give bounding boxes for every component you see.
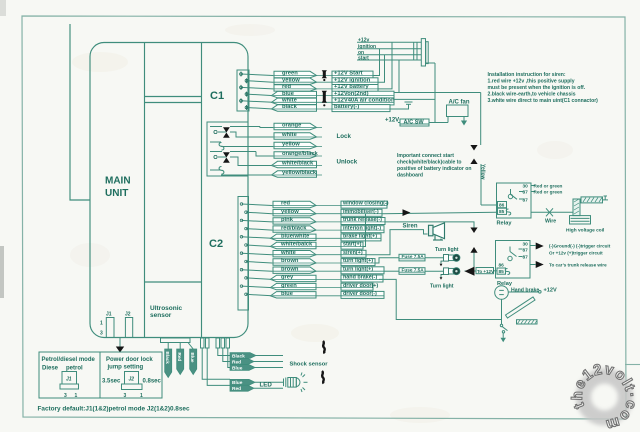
svg-text:85: 85 (499, 269, 505, 275)
svg-text:white: white (281, 98, 298, 104)
svg-text:To car’s trunk release wire: To car’s trunk release wire (549, 263, 607, 268)
svg-text:Fuse 7.5A: Fuse 7.5A (402, 254, 425, 259)
svg-text:Hand brake: Hand brake (511, 287, 539, 293)
svg-text:blue/white: blue/white (281, 234, 310, 240)
svg-text:white/balck: white/balck (280, 242, 313, 248)
svg-text:must be present when the ignit: must be present when the ignition is off… (488, 85, 586, 91)
svg-text:blue: blue (282, 91, 295, 97)
svg-text:Factory default:J1(1&2)petrol: Factory default:J1(1&2)petrol mode J2(1&… (38, 406, 190, 413)
svg-text:red: red (282, 84, 291, 90)
svg-text:1: 1 (100, 321, 103, 327)
svg-text:driver door(-): driver door(-) (343, 291, 377, 297)
svg-text:interion light(-): interion light(-) (343, 225, 381, 231)
svg-text:+12V40A air condition: +12V40A air condition (334, 98, 395, 104)
svg-text:window closing(-): window closing(-) (342, 201, 389, 207)
svg-text:yellow/black: yellow/black (282, 170, 317, 176)
svg-text:Wire: Wire (545, 219, 556, 225)
svg-text:hand brake(-): hand brake(-) (343, 275, 377, 281)
svg-text:Power door lock: Power door lock (106, 357, 153, 363)
svg-text:siren(+): siren(+) (343, 250, 363, 256)
svg-text:brown: brown (281, 258, 299, 264)
svg-text:J1: J1 (66, 377, 72, 383)
svg-text:Blue: Blue (232, 365, 243, 371)
svg-text:brown: brown (281, 266, 299, 272)
svg-text:1: 1 (140, 393, 143, 399)
svg-text:jump setting: jump setting (107, 365, 144, 371)
svg-text:yellow: yellow (281, 209, 299, 215)
svg-text:start(+): start(+) (343, 242, 362, 248)
svg-text:battery(-): battery(-) (334, 104, 359, 110)
svg-text:+12V: +12V (385, 118, 399, 124)
svg-text:Turn light: Turn light (435, 247, 459, 253)
svg-text:Unlock: Unlock (337, 159, 358, 166)
svg-text:UNIT: UNIT (105, 188, 128, 199)
svg-text:(-)Ground(-) (-)trigger circu: (-)Ground(-) (-)trigger circuit (549, 244, 611, 249)
svg-text:Red: Red (177, 353, 182, 362)
svg-text:white: white (281, 132, 298, 138)
svg-text:Or +12v (+)trigger circui: Or +12v (+)trigger circuit (549, 251, 603, 256)
svg-text:green: green (282, 71, 298, 77)
svg-text:+12V: +12V (544, 287, 557, 293)
svg-text:immobiliser(-): immobiliser(-) (343, 209, 379, 215)
svg-text:1: 1 (75, 393, 78, 399)
svg-text:Shock sensor: Shock sensor (290, 362, 329, 368)
svg-text:check(white/black)cable to: check(white/black)cable to (397, 160, 462, 166)
svg-text:Red: Red (232, 386, 241, 392)
svg-text:Yellow: Yellow (480, 164, 486, 180)
svg-text:0.8sec: 0.8sec (143, 379, 162, 385)
svg-text:+12V Start: +12V Start (334, 71, 363, 77)
svg-text:grey: grey (281, 275, 294, 281)
svg-text:sensor: sensor (150, 312, 172, 319)
svg-text:white/black: white/black (281, 161, 314, 167)
svg-text:1.red wire +12v ,this positive: 1.red wire +12v ,this positive supply (488, 79, 575, 85)
svg-text:86: 86 (499, 263, 505, 269)
svg-text:2.black wire-earth,to vehicle: 2.black wire-earth,to vehicle chassis (488, 92, 576, 98)
svg-text:MAIN: MAIN (105, 176, 131, 187)
svg-text:yellow: yellow (282, 142, 300, 148)
svg-text:Red: Red (232, 359, 241, 365)
svg-text:C2: C2 (209, 238, 223, 250)
svg-text:Ultrosonic: Ultrosonic (150, 305, 183, 312)
svg-text:white: white (280, 250, 297, 256)
svg-text:Red or green: Red or green (534, 183, 563, 188)
svg-text:85: 85 (499, 209, 505, 215)
svg-text:Blue: Blue (232, 380, 243, 386)
svg-text:30: 30 (523, 184, 529, 190)
svg-text:pink: pink (281, 217, 294, 223)
svg-text:C1: C1 (210, 90, 224, 102)
svg-text:Relay: Relay (497, 221, 513, 227)
svg-text:3: 3 (64, 393, 67, 399)
svg-text:3.white wire direct to main ui: 3.white wire direct to main uint(C1 conn… (488, 98, 599, 104)
svg-text:positive of battery indicator: positive of battery indicator on (397, 166, 471, 172)
svg-text:LED: LED (260, 381, 273, 388)
svg-text:A/C fan: A/C fan (449, 100, 470, 106)
svg-text:87: 87 (523, 198, 529, 204)
svg-text:Siren: Siren (403, 224, 418, 230)
svg-text:petrol: petrol (66, 366, 83, 372)
svg-text:+12V ignition: +12V ignition (334, 77, 371, 83)
svg-text:J2: J2 (125, 312, 131, 318)
svg-text:To +12V: To +12V (477, 269, 494, 274)
svg-text:dashboard: dashboard (397, 173, 423, 179)
svg-text:blue: blue (281, 291, 294, 297)
svg-text:86: 86 (499, 203, 505, 209)
svg-text:black: black (282, 104, 298, 110)
svg-text:Black: Black (232, 353, 245, 359)
svg-text:trunk release(-): trunk release(-) (343, 217, 382, 223)
svg-text:A/C SW: A/C SW (404, 120, 425, 126)
svg-text:87: 87 (523, 255, 529, 261)
svg-text:Petrol/diesel mode: Petrol/diesel mode (42, 357, 96, 363)
svg-text:3: 3 (100, 331, 103, 337)
svg-text:turn light(+): turn light(+) (343, 258, 373, 264)
svg-text:J1: J1 (106, 312, 112, 318)
svg-text:87: 87 (523, 190, 529, 196)
svg-text:orange: orange (282, 123, 302, 129)
svg-text:red/black: red/black (281, 225, 307, 231)
svg-text:3.5sec: 3.5sec (102, 379, 121, 385)
svg-text:Important connect start: Important connect start (397, 153, 454, 159)
svg-text:30: 30 (523, 242, 529, 248)
svg-text:red: red (281, 201, 290, 207)
svg-text:High voltage coil: High voltage coil (566, 228, 604, 234)
svg-text:3: 3 (124, 393, 127, 399)
svg-text:Black: Black (165, 352, 170, 365)
svg-text:Red or green: Red or green (534, 190, 563, 195)
svg-text:Lock: Lock (337, 133, 352, 140)
svg-text:Installation instruction for s: Installation instruction for siren: (488, 72, 566, 78)
svg-text:J2: J2 (129, 377, 135, 383)
svg-text:Turn light: Turn light (430, 284, 454, 290)
svg-text:driver door(+): driver door(+) (343, 283, 378, 289)
svg-text:brake light(+): brake light(+) (343, 234, 377, 240)
svg-text:yellow: yellow (282, 77, 300, 83)
svg-text:+12V battery: +12V battery (334, 84, 369, 90)
svg-text:orange/black: orange/black (282, 151, 319, 157)
svg-text:Diese: Diese (42, 366, 59, 372)
svg-text:+12Von(2nd): +12Von(2nd) (334, 91, 369, 97)
svg-text:Fuse 7.5A: Fuse 7.5A (402, 268, 425, 273)
svg-text:87: 87 (523, 248, 529, 254)
svg-text:green: green (281, 283, 297, 289)
svg-text:turn light(+): turn light(+) (343, 266, 373, 272)
svg-text:Blue: Blue (190, 353, 195, 363)
